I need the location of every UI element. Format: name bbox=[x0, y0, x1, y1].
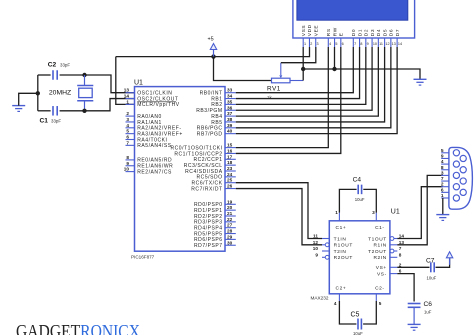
microcontroller U1 PIC16F877 body bbox=[135, 87, 226, 252]
junction: +5 arrow on rail bbox=[211, 54, 215, 58]
svg-text:R2OUT: R2OUT bbox=[334, 255, 353, 261]
U1 PIC left pin stubs bbox=[126, 93, 135, 172]
svg-text:RA5/AN4/SS: RA5/AN4/SS bbox=[137, 143, 172, 149]
svg-text:D1: D1 bbox=[357, 29, 363, 36]
wire RB1 (pin 34) to LCD D1 bbox=[236, 47, 360, 99]
wire crystal top node to OSC1 (pin 13) bbox=[85, 75, 135, 93]
svg-text:10uF: 10uF bbox=[427, 275, 437, 280]
wire MAX232 pin4 to C5 bbox=[339, 301, 356, 324]
svg-text:39: 39 bbox=[227, 123, 233, 128]
svg-text:36: 36 bbox=[227, 105, 233, 110]
U1 MAX232 top pin stubs (1,3) bbox=[339, 213, 376, 221]
wire C5 to MAX232 pin5 bbox=[363, 301, 376, 324]
U1 MAX232 bottom pin stubs (4,5) bbox=[339, 294, 376, 301]
svg-text:C6: C6 bbox=[424, 301, 433, 308]
svg-text:23: 23 bbox=[227, 166, 233, 171]
potentiometer RV1 1k bbox=[272, 63, 291, 83]
svg-text:6: 6 bbox=[126, 135, 129, 140]
svg-text:4: 4 bbox=[441, 159, 444, 165]
svg-text:GADGETRONICX: GADGETRONICX bbox=[16, 322, 140, 335]
capacitor C7 bbox=[431, 262, 434, 272]
svg-text:VEE: VEE bbox=[314, 25, 320, 36]
svg-text:9: 9 bbox=[315, 252, 318, 257]
svg-text:33pF: 33pF bbox=[60, 63, 70, 68]
svg-text:16: 16 bbox=[227, 148, 233, 153]
svg-text:T1OUT: T1OUT bbox=[368, 236, 387, 242]
capacitor C1 bbox=[53, 106, 57, 116]
svg-text:6: 6 bbox=[399, 269, 402, 274]
wire bottom branch: C1 to crystal bottom node bbox=[60, 110, 85, 112]
power +5 arrow (left) bbox=[208, 36, 217, 56]
wire R1IN (pin13) to DB9 pin 3 bbox=[397, 175, 443, 244]
svg-text:D6: D6 bbox=[389, 29, 395, 36]
svg-text:10uF: 10uF bbox=[353, 331, 363, 335]
wire RB2 (pin 35) to LCD D2 bbox=[236, 47, 366, 104]
svg-text:9: 9 bbox=[441, 153, 444, 159]
svg-text:13: 13 bbox=[399, 240, 405, 245]
svg-text:14: 14 bbox=[124, 94, 130, 99]
U1 MAX232 right pin numbers bbox=[399, 234, 405, 274]
svg-text:2: 2 bbox=[441, 182, 444, 188]
svg-text:C1: C1 bbox=[40, 117, 49, 124]
svg-text:2: 2 bbox=[399, 262, 402, 267]
svg-text:D0: D0 bbox=[351, 29, 357, 36]
wire bottom branch: rail to C1 bbox=[38, 110, 51, 112]
svg-text:4: 4 bbox=[126, 123, 129, 128]
svg-text:VS-: VS- bbox=[377, 271, 387, 277]
wire VS+ (pin2) to C7 bbox=[397, 266, 429, 268]
junction: VSS vertical / ground rail bbox=[301, 67, 305, 71]
ground GND3 (DB9 shell) bbox=[436, 215, 449, 221]
LCD pin numbers 1-14 bbox=[304, 42, 402, 46]
wire MCLR (pin 1) to +5 rail bbox=[116, 57, 135, 105]
wire VS- (pin6) to C6 bbox=[397, 274, 414, 302]
svg-text:13: 13 bbox=[124, 88, 130, 93]
svg-text:C2-: C2- bbox=[375, 286, 385, 292]
capacitor C5 bbox=[358, 319, 361, 330]
wire RV1 wiper to VEE (LCD pin3) bbox=[281, 47, 316, 63]
svg-text:T2OUT: T2OUT bbox=[368, 249, 387, 255]
LCD pin stubs 1-14 bbox=[303, 38, 397, 47]
svg-text:7: 7 bbox=[354, 42, 356, 46]
svg-text:C4: C4 bbox=[353, 177, 362, 184]
svg-text:RS: RS bbox=[326, 28, 332, 36]
svg-text:R1IN: R1IN bbox=[373, 243, 386, 249]
svg-text:22: 22 bbox=[227, 217, 233, 222]
svg-text:26: 26 bbox=[227, 184, 233, 189]
wire DB9 pin 1 to ground bbox=[442, 198, 444, 215]
svg-text:MAX232: MAX232 bbox=[311, 296, 329, 301]
svg-text:20: 20 bbox=[227, 205, 233, 210]
svg-text:D2: D2 bbox=[364, 29, 370, 36]
svg-text:11: 11 bbox=[313, 234, 318, 239]
svg-text:RE2/AN7/CS: RE2/AN7/CS bbox=[137, 169, 172, 175]
wire RB5 (pin 38) to LCD D5 bbox=[236, 47, 385, 122]
svg-text:6: 6 bbox=[342, 42, 344, 46]
svg-text:VS+: VS+ bbox=[376, 265, 387, 271]
U1 PIC right pin names bbox=[170, 91, 222, 250]
wire RC1 (pin 16) to LCD E bbox=[236, 47, 341, 153]
wire left rail (C2/C1 common) bbox=[37, 75, 39, 111]
wire RB7 (pin 40) to LCD D7 bbox=[236, 47, 397, 134]
wire RW (LCD pin5) to ground rail bbox=[334, 47, 336, 69]
svg-text:1: 1 bbox=[335, 210, 338, 215]
svg-text:8: 8 bbox=[126, 155, 129, 160]
logo GADGETRONICX bbox=[16, 322, 140, 335]
svg-text:R1OUT: R1OUT bbox=[334, 243, 353, 249]
wire +5 rail (VDD net) bbox=[116, 47, 310, 57]
svg-text:37: 37 bbox=[227, 111, 233, 116]
svg-text:1uF: 1uF bbox=[424, 309, 432, 314]
svg-text:T1IN: T1IN bbox=[334, 236, 347, 242]
capacitor C2 bbox=[53, 70, 57, 80]
svg-text:C2+: C2+ bbox=[336, 286, 347, 292]
svg-text:R2IN: R2IN bbox=[373, 255, 386, 261]
svg-text:18: 18 bbox=[227, 160, 233, 165]
svg-text:7: 7 bbox=[441, 176, 444, 182]
connector J1 DB9 pin stubs bbox=[441, 153, 449, 198]
svg-text:40: 40 bbox=[227, 129, 233, 134]
svg-text:25: 25 bbox=[227, 178, 233, 183]
svg-text:D5: D5 bbox=[382, 29, 388, 36]
wire +5 rail to RV1 left terminal bbox=[214, 57, 272, 81]
svg-text:C2: C2 bbox=[48, 61, 57, 68]
svg-text:24: 24 bbox=[227, 172, 233, 177]
svg-text:C5: C5 bbox=[351, 312, 360, 319]
svg-text:6: 6 bbox=[441, 187, 444, 193]
svg-text:10uF: 10uF bbox=[355, 197, 365, 202]
svg-text:30: 30 bbox=[227, 240, 233, 245]
crystal X1 20MHZ bbox=[77, 75, 93, 111]
svg-text:34: 34 bbox=[227, 94, 233, 99]
svg-text:U1: U1 bbox=[134, 80, 143, 87]
svg-text:33pF: 33pF bbox=[51, 119, 61, 124]
svg-text:1k: 1k bbox=[267, 95, 272, 100]
wire C6 to ground bbox=[413, 307, 415, 324]
svg-text:3: 3 bbox=[372, 210, 375, 215]
LCD module LCD1 frame bbox=[293, 0, 415, 38]
svg-text:27: 27 bbox=[227, 223, 233, 228]
capacitor C6 bbox=[408, 304, 421, 308]
svg-text:2: 2 bbox=[126, 111, 129, 116]
svg-text:D7: D7 bbox=[395, 29, 401, 36]
junction: RW / ground rail bbox=[332, 67, 336, 71]
svg-text:T2IN: T2IN bbox=[334, 249, 347, 255]
wire RV1 right terminal to VSS/ground net bbox=[290, 80, 303, 82]
svg-text:C1+: C1+ bbox=[336, 225, 347, 231]
svg-text:E: E bbox=[339, 32, 345, 36]
U1 MAX232 top pin numbers bbox=[335, 210, 375, 215]
svg-text:1: 1 bbox=[126, 99, 129, 104]
svg-text:1: 1 bbox=[304, 42, 306, 46]
svg-text:RW: RW bbox=[332, 27, 338, 36]
U1 PIC left pin numbers bbox=[124, 88, 130, 172]
wire GND1 to crystal left rail bbox=[19, 93, 38, 105]
svg-text:5: 5 bbox=[379, 301, 382, 306]
LCD screen (blue area) bbox=[297, 0, 408, 20]
capacitor C4 bbox=[358, 185, 361, 195]
ground GND2 (under LCD) bbox=[414, 79, 427, 85]
svg-text:7: 7 bbox=[126, 140, 129, 145]
svg-text:5: 5 bbox=[335, 42, 337, 46]
wire T1OUT (pin14) to DB9 pin 2 bbox=[397, 187, 443, 239]
U1 PIC right pin stubs bbox=[225, 93, 236, 246]
svg-text:4: 4 bbox=[334, 301, 337, 306]
svg-text:10: 10 bbox=[373, 42, 377, 46]
wire RB0 (pin 33) to LCD D0 bbox=[236, 47, 353, 93]
connector J1 DB9 body bbox=[449, 147, 473, 209]
svg-text:VSS: VSS bbox=[301, 25, 307, 36]
wire MAX232 pin1 to C4 bbox=[339, 189, 356, 212]
svg-text:PIC16F877: PIC16F877 bbox=[131, 254, 155, 259]
svg-text:3: 3 bbox=[441, 170, 444, 176]
svg-text:38: 38 bbox=[227, 117, 233, 122]
svg-text:3: 3 bbox=[126, 117, 129, 122]
wire RC7/RX (pin 26) to MAX232 R1OUT bbox=[236, 189, 322, 245]
U1 PIC right pin numbers bbox=[227, 88, 233, 246]
U1 PIC left pin names bbox=[137, 91, 183, 176]
svg-text:10: 10 bbox=[124, 167, 130, 172]
svg-text:D4: D4 bbox=[376, 29, 382, 36]
svg-text:RV1: RV1 bbox=[267, 85, 281, 92]
wire crystal bottom node to OSC2 (pin 14) bbox=[85, 99, 135, 111]
wire C4 to MAX232 pin3 bbox=[363, 189, 376, 212]
svg-text:VDD: VDD bbox=[307, 24, 313, 36]
wire RC6/TX (pin 25) to MAX232 T1IN bbox=[236, 183, 322, 239]
wire RB6 (pin 39) to LCD D6 bbox=[236, 47, 391, 128]
svg-text:14: 14 bbox=[398, 42, 402, 46]
ground GND1 (crystal section) bbox=[12, 106, 25, 112]
connector J1 DB9 pin holes bbox=[453, 150, 466, 201]
svg-text:C7: C7 bbox=[426, 258, 435, 265]
svg-text:RC7/RX/DT: RC7/RX/DT bbox=[191, 186, 222, 192]
svg-text:C1-: C1- bbox=[375, 225, 385, 231]
wire RC0 (pin 15) to LCD RS bbox=[236, 47, 328, 148]
svg-text:8: 8 bbox=[399, 252, 402, 257]
svg-text:RB7/PGD: RB7/PGD bbox=[197, 131, 223, 137]
ground GND4 (below C6) bbox=[408, 324, 421, 330]
power +5 arrow (right) bbox=[446, 252, 452, 265]
IC U1 MAX232 body bbox=[329, 221, 390, 294]
svg-text:D3: D3 bbox=[370, 29, 376, 36]
U1 MAX232 right pin stubs (14,13,7,8,2,6) bbox=[390, 237, 397, 274]
junction: crystal top bbox=[82, 73, 86, 77]
wire RB4 (pin 37) to LCD D4 bbox=[236, 47, 379, 116]
U1 MAX232 left pin stubs (11,12,10,9) bbox=[322, 239, 329, 260]
svg-text:14: 14 bbox=[399, 234, 405, 239]
U1 MAX232 left pin numbers bbox=[313, 234, 319, 258]
svg-text:8: 8 bbox=[441, 165, 444, 171]
svg-text:10: 10 bbox=[313, 246, 319, 251]
svg-text:+5: +5 bbox=[208, 36, 214, 42]
svg-text:20MHZ: 20MHZ bbox=[49, 89, 71, 96]
svg-text:3: 3 bbox=[317, 42, 319, 46]
svg-text:2: 2 bbox=[310, 42, 312, 46]
svg-text:MCLR/Vpp/THV: MCLR/Vpp/THV bbox=[137, 102, 180, 108]
junction: ground / left rail bbox=[36, 91, 40, 95]
svg-text:U1: U1 bbox=[391, 209, 400, 216]
svg-text:15: 15 bbox=[227, 143, 233, 148]
U1 MAX232 bottom pin numbers bbox=[334, 301, 382, 306]
wire VSS (LCD pin1) vertical bbox=[302, 47, 304, 81]
junction: crystal bottom bbox=[82, 109, 86, 113]
svg-text:RD7/PSP7: RD7/PSP7 bbox=[194, 243, 223, 249]
svg-text:5: 5 bbox=[126, 129, 129, 134]
wire top branch: rail to C2 bbox=[38, 74, 51, 76]
svg-text:11: 11 bbox=[379, 42, 383, 46]
wire ground rail under LCD bbox=[303, 69, 420, 79]
svg-text:4: 4 bbox=[329, 42, 331, 46]
svg-text:13: 13 bbox=[392, 42, 396, 46]
svg-text:35: 35 bbox=[227, 99, 233, 104]
svg-text:12: 12 bbox=[385, 42, 389, 46]
svg-text:9: 9 bbox=[367, 42, 369, 46]
wire RB3 (pin 36) to LCD D3 bbox=[236, 47, 372, 110]
svg-text:9: 9 bbox=[126, 161, 129, 166]
U1 MAX232 internal pin labels bbox=[334, 225, 387, 292]
connector J1 DB9 pin numbers (5,9,4,8,3,7,2,6,1) bbox=[441, 148, 444, 199]
svg-text:12: 12 bbox=[313, 240, 319, 245]
svg-text:19: 19 bbox=[227, 199, 233, 204]
wire C7 to +5 arrow bbox=[436, 258, 450, 267]
svg-text:29: 29 bbox=[227, 234, 233, 239]
svg-text:7: 7 bbox=[399, 246, 402, 251]
svg-text:5: 5 bbox=[441, 148, 444, 154]
svg-text:28: 28 bbox=[227, 229, 233, 234]
LCD pin name labels (rotated) bbox=[301, 24, 401, 36]
svg-text:17: 17 bbox=[227, 154, 233, 159]
svg-text:21: 21 bbox=[227, 211, 233, 216]
svg-text:33: 33 bbox=[227, 88, 233, 93]
wire top branch: C2 to crystal top node bbox=[60, 74, 85, 76]
svg-text:8: 8 bbox=[360, 42, 362, 46]
